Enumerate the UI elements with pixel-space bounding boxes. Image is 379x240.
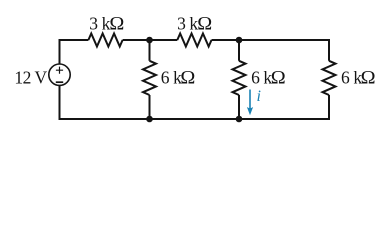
svg-text:6 k: 6 k: [341, 67, 362, 87]
svg-text:12 V: 12 V: [14, 68, 47, 88]
resistor R3 6 kOhm vertical zigzag: [143, 61, 156, 95]
svg-text:Ω: Ω: [109, 14, 124, 34]
voltage source plus sign: [56, 67, 63, 74]
wire bottom: [59, 118, 331, 120]
wire top right segment: [212, 39, 331, 41]
wire branch2 upper: [238, 40, 240, 61]
voltage source minus sign: [56, 81, 63, 83]
resistor R2 3 kOhm horizontal zigzag: [177, 34, 211, 47]
wire right branch upper: [328, 40, 330, 61]
svg-text:Ω: Ω: [180, 68, 195, 88]
svg-text:3 k: 3 k: [89, 13, 110, 33]
wire branch1 upper: [149, 40, 151, 61]
wire branch1 lower: [149, 95, 151, 119]
svg-text:6 k: 6 k: [161, 67, 182, 87]
wire left branch upper: [59, 40, 61, 64]
node C junction dot bottom-left: [146, 116, 153, 123]
wire left branch lower: [59, 85, 61, 119]
svg-text:3 k: 3 k: [177, 13, 198, 33]
resistor R1 3 kOhm horizontal zigzag: [88, 34, 122, 47]
svg-text:i: i: [257, 88, 261, 105]
svg-text:Ω: Ω: [271, 68, 286, 88]
current arrow i: [247, 90, 253, 116]
wire branch2 lower: [238, 95, 240, 119]
node D junction dot bottom-right: [236, 116, 243, 123]
resistor R5 6 kOhm vertical zigzag: [323, 61, 336, 95]
wire right branch lower: [328, 95, 330, 119]
wire top middle segment: [123, 39, 178, 41]
svg-text:Ω: Ω: [361, 68, 376, 88]
voltage source V1 circle: [49, 64, 70, 85]
node A junction dot top-left: [146, 37, 153, 44]
svg-text:Ω: Ω: [197, 14, 212, 34]
node B junction dot top-right: [236, 37, 243, 44]
wire top-left segment: [59, 39, 89, 41]
svg-text:6 k: 6 k: [251, 67, 272, 87]
resistor R4 6 kOhm vertical zigzag: [233, 61, 246, 95]
